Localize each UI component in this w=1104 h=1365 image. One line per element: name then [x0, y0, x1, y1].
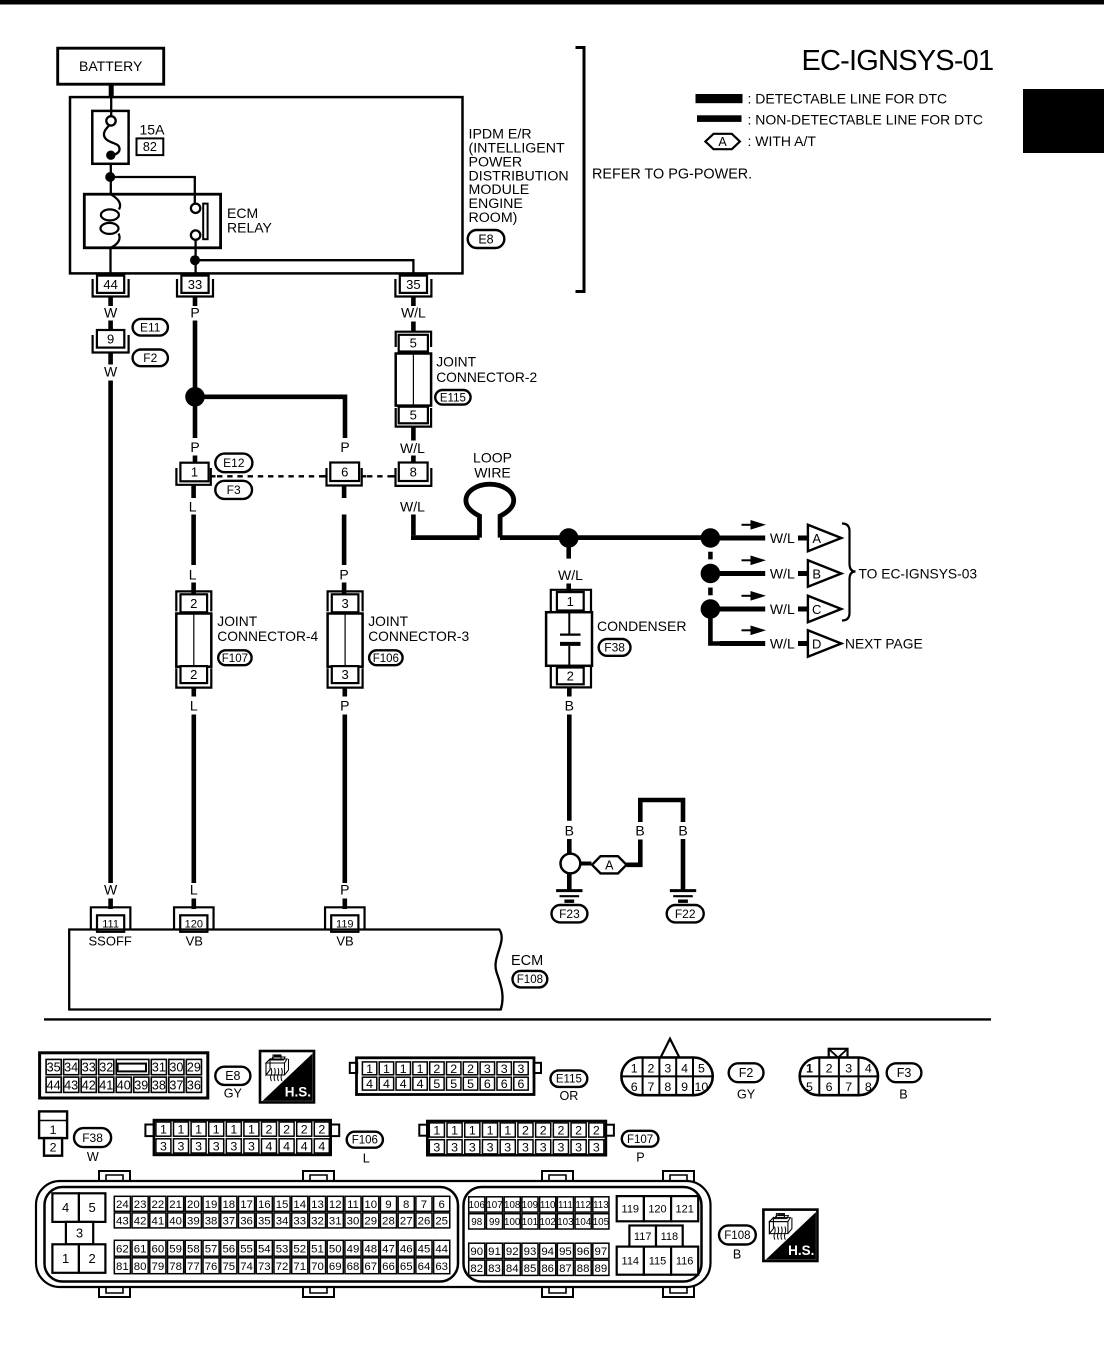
svg-text:W/L: W/L	[400, 440, 425, 456]
svg-text:40: 40	[169, 1216, 182, 1228]
connector view E115	[350, 1063, 357, 1073]
svg-text:32: 32	[99, 1061, 113, 1075]
svg-text:4: 4	[681, 1061, 688, 1075]
svg-text:6: 6	[484, 1077, 491, 1091]
svg-text:72: 72	[276, 1261, 289, 1273]
svg-text:F108: F108	[517, 974, 543, 986]
svg-text:75: 75	[222, 1261, 235, 1273]
svg-text:2: 2	[266, 1123, 273, 1137]
svg-text:37: 37	[169, 1078, 183, 1092]
svg-text:3: 3	[522, 1140, 529, 1154]
arrow B	[742, 559, 754, 561]
svg-text:6: 6	[439, 1199, 445, 1211]
junction node P	[185, 387, 205, 407]
svg-text:A: A	[605, 858, 614, 872]
svg-text:18: 18	[222, 1199, 235, 1211]
svg-text:3: 3	[230, 1139, 237, 1153]
svg-text:3: 3	[451, 1140, 458, 1154]
svg-text:6: 6	[826, 1080, 833, 1094]
wire fuse to relay	[110, 164, 112, 194]
ECM pin 120	[174, 907, 214, 929]
svg-text:119: 119	[622, 1204, 640, 1216]
svg-text:B: B	[812, 566, 821, 581]
wire W/L to joint connector-2	[411, 322, 416, 332]
tick	[798, 607, 807, 612]
svg-text:7: 7	[845, 1080, 852, 1094]
svg-text:39: 39	[134, 1078, 148, 1092]
tick	[798, 536, 807, 541]
svg-text:1: 1	[806, 1061, 813, 1075]
junction node	[105, 172, 115, 182]
wire P from pin 33	[193, 321, 198, 439]
wire P to ECM pin 119	[342, 688, 347, 697]
wire stub	[108, 899, 113, 910]
svg-text:116: 116	[676, 1256, 694, 1268]
svg-text:B: B	[678, 823, 687, 839]
svg-text:CONNECTOR-4: CONNECTOR-4	[217, 629, 318, 644]
wire stub	[192, 899, 197, 910]
wire stub under junction	[566, 548, 571, 559]
svg-text:W: W	[87, 1150, 99, 1164]
connector id F38	[599, 639, 631, 656]
fuse number 82	[137, 138, 164, 155]
svg-text:L: L	[190, 882, 198, 898]
svg-text:8: 8	[865, 1080, 872, 1094]
svg-text:30: 30	[169, 1061, 183, 1075]
svg-text:2: 2	[50, 1141, 57, 1155]
relay contact bottom	[191, 230, 200, 239]
svg-text:2: 2	[522, 1123, 529, 1137]
ECM pin grid rows 24-6 / 43-25	[114, 1196, 130, 1211]
svg-text:3: 3	[504, 1140, 511, 1154]
svg-text:42: 42	[134, 1216, 147, 1228]
svg-text:36: 36	[240, 1216, 253, 1228]
svg-text:34: 34	[64, 1061, 78, 1075]
arrow C	[742, 595, 754, 597]
svg-text:L: L	[189, 499, 197, 515]
svg-text:52: 52	[293, 1243, 306, 1255]
tick	[798, 641, 807, 646]
svg-text:106: 106	[469, 1200, 486, 1211]
svg-text:: WITH A/T: : WITH A/T	[748, 133, 817, 149]
svg-text:3: 3	[341, 667, 348, 682]
svg-text:W: W	[104, 882, 118, 898]
wire up-over	[640, 800, 683, 822]
svg-text:108: 108	[504, 1200, 521, 1211]
svg-text:W/L: W/L	[558, 567, 583, 583]
svg-text:6: 6	[631, 1080, 638, 1094]
svg-text:4: 4	[318, 1139, 325, 1153]
svg-text:3: 3	[557, 1140, 564, 1154]
flag B	[808, 560, 841, 586]
svg-text:103: 103	[557, 1217, 574, 1228]
ground id F23	[552, 905, 588, 922]
wire L	[191, 485, 196, 498]
svg-text:113: 113	[593, 1200, 609, 1211]
svg-text:90: 90	[470, 1246, 483, 1258]
relay contact top	[191, 204, 200, 213]
svg-text:2: 2	[575, 1123, 582, 1137]
svg-text:1: 1	[504, 1123, 511, 1137]
wire stub	[342, 899, 347, 910]
svg-text:CONNECTOR-2: CONNECTOR-2	[436, 370, 537, 385]
svg-text:118: 118	[661, 1231, 679, 1243]
svg-text:30: 30	[347, 1216, 360, 1228]
svg-text:2: 2	[540, 1123, 547, 1137]
svg-text:F23: F23	[559, 907, 580, 921]
svg-text:B: B	[635, 823, 644, 839]
svg-text:21: 21	[169, 1199, 182, 1211]
top header bar	[0, 0, 1104, 5]
svg-text:2: 2	[301, 1123, 308, 1137]
svg-text:31: 31	[152, 1061, 166, 1075]
svg-text:1: 1	[213, 1123, 220, 1137]
svg-text:13: 13	[311, 1199, 324, 1211]
svg-text:71: 71	[293, 1261, 306, 1273]
joint connector-2	[396, 332, 431, 347]
wire to condenser	[566, 584, 571, 593]
svg-text:33: 33	[188, 277, 202, 292]
svg-text:4: 4	[865, 1061, 872, 1075]
wire battery to IPDM	[109, 84, 114, 97]
svg-text:3: 3	[501, 1062, 508, 1076]
wire P	[342, 486, 347, 499]
connector id E12	[215, 454, 252, 473]
svg-text:7: 7	[421, 1199, 427, 1211]
svg-text:85: 85	[524, 1263, 537, 1275]
svg-text:W/L: W/L	[770, 530, 795, 546]
svg-text:41: 41	[152, 1216, 165, 1228]
dashes between nodes	[708, 552, 712, 560]
connector id F107	[622, 1131, 659, 1147]
svg-text:1: 1	[383, 1062, 390, 1076]
svg-text:JOINT: JOINT	[217, 614, 257, 629]
connector 9	[93, 335, 129, 353]
svg-text:3: 3	[160, 1139, 167, 1153]
svg-text:77: 77	[187, 1261, 200, 1273]
connector view F107	[419, 1125, 428, 1136]
svg-text:4: 4	[366, 1077, 373, 1091]
svg-text:VB: VB	[336, 933, 353, 948]
wire stub pin 33	[193, 297, 198, 307]
svg-text:2: 2	[89, 1251, 96, 1266]
svg-text:16: 16	[258, 1199, 271, 1211]
svg-text:5: 5	[450, 1077, 457, 1091]
svg-text:L: L	[363, 1152, 370, 1166]
svg-text:57: 57	[205, 1243, 218, 1255]
junction node	[559, 528, 579, 548]
svg-text:REFER TO PG-POWER.: REFER TO PG-POWER.	[592, 167, 752, 183]
svg-text:1: 1	[487, 1123, 494, 1137]
wire contact to pin 33	[194, 240, 196, 277]
svg-text:64: 64	[418, 1261, 431, 1273]
svg-text:1: 1	[366, 1062, 373, 1076]
wire to ground F22	[681, 839, 686, 890]
svg-text:35: 35	[406, 277, 420, 292]
connector 6	[322, 475, 327, 477]
svg-text:3: 3	[540, 1140, 547, 1154]
svg-text:2: 2	[648, 1061, 655, 1075]
svg-text:F3: F3	[227, 483, 241, 497]
svg-text:42: 42	[82, 1078, 96, 1092]
branch A wire	[720, 536, 765, 541]
svg-text:1: 1	[400, 1062, 407, 1076]
svg-text:92: 92	[506, 1246, 519, 1258]
connector view F106	[145, 1125, 154, 1137]
svg-text:5: 5	[410, 408, 417, 423]
svg-text:83: 83	[488, 1263, 501, 1275]
ECM key block right	[617, 1196, 644, 1221]
wire from connector 8 down	[411, 515, 416, 536]
svg-text:7: 7	[648, 1080, 655, 1094]
wire branch to pin 35	[195, 260, 413, 277]
svg-text:5: 5	[806, 1080, 813, 1094]
svg-text:6: 6	[501, 1077, 508, 1091]
svg-text:111: 111	[558, 1200, 573, 1211]
svg-text:8: 8	[410, 464, 417, 479]
ground id F22	[667, 905, 704, 922]
svg-text:4: 4	[417, 1077, 424, 1091]
svg-text:10: 10	[364, 1199, 377, 1211]
svg-text:1: 1	[178, 1123, 185, 1137]
wire into fuse	[110, 97, 112, 116]
condenser	[551, 590, 591, 615]
svg-text:B: B	[565, 823, 574, 839]
joint connector body at x=345.1	[328, 591, 363, 611]
svg-text:82: 82	[143, 140, 157, 154]
svg-text:W/L: W/L	[401, 305, 426, 321]
ECM relay box	[84, 194, 220, 248]
svg-text:41: 41	[99, 1078, 113, 1092]
svg-text:2: 2	[318, 1123, 325, 1137]
svg-text:102: 102	[540, 1217, 556, 1228]
connector id F3	[215, 481, 252, 499]
svg-text:A: A	[812, 531, 821, 546]
svg-text:97: 97	[595, 1246, 608, 1258]
svg-text:6: 6	[341, 464, 348, 479]
svg-text:12: 12	[329, 1199, 342, 1211]
wire to connector 9	[108, 321, 113, 331]
svg-text:38: 38	[205, 1216, 218, 1228]
svg-text:110: 110	[540, 1200, 556, 1211]
svg-text:F2: F2	[739, 1066, 754, 1080]
svg-text:74: 74	[240, 1261, 253, 1273]
svg-text:14: 14	[293, 1199, 306, 1211]
wire to D branch	[710, 618, 724, 644]
svg-text:43: 43	[64, 1078, 78, 1092]
svg-text:65: 65	[400, 1261, 413, 1273]
svg-text:P: P	[190, 439, 199, 455]
svg-text:W: W	[104, 364, 118, 380]
flag D	[808, 630, 841, 656]
svg-text:50: 50	[329, 1243, 342, 1255]
svg-text:95: 95	[559, 1246, 572, 1258]
svg-text:15A: 15A	[140, 122, 166, 138]
svg-text:33: 33	[82, 1061, 96, 1075]
svg-text:27: 27	[400, 1216, 413, 1228]
wire coil to pin 44	[109, 248, 111, 277]
svg-text:17: 17	[240, 1199, 253, 1211]
ECM connector right housing	[464, 1187, 702, 1282]
svg-text:109: 109	[522, 1200, 538, 1211]
svg-text:F107: F107	[222, 653, 248, 665]
svg-text:46: 46	[400, 1243, 413, 1255]
svg-text:73: 73	[258, 1261, 271, 1273]
arrow D	[742, 629, 754, 631]
svg-text:39: 39	[187, 1216, 200, 1228]
fuse 15A	[92, 111, 128, 164]
svg-text:38: 38	[152, 1078, 166, 1092]
svg-text:4: 4	[400, 1077, 407, 1091]
svg-text:32: 32	[311, 1216, 324, 1228]
svg-text:67: 67	[364, 1261, 377, 1273]
svg-text:86: 86	[541, 1263, 554, 1275]
separator	[44, 1018, 991, 1020]
svg-text:1: 1	[248, 1123, 255, 1137]
connector id E115	[551, 1070, 588, 1087]
svg-text:H.S.: H.S.	[285, 1084, 311, 1099]
connector id F108	[513, 971, 548, 988]
svg-text:3: 3	[484, 1062, 491, 1076]
svg-text:15: 15	[276, 1199, 289, 1211]
svg-text:2: 2	[467, 1062, 474, 1076]
svg-text:2: 2	[826, 1061, 833, 1075]
joint connector body at x=193.8	[176, 591, 211, 611]
svg-text:58: 58	[187, 1243, 200, 1255]
brace to EC-IGNSYS-03	[842, 524, 856, 621]
svg-text:E8: E8	[478, 232, 493, 246]
IPDM E/R box	[70, 97, 463, 273]
junction nodes column	[701, 528, 721, 548]
svg-text:1: 1	[160, 1123, 167, 1137]
svg-text:2: 2	[283, 1123, 290, 1137]
wire horizontal to loop	[411, 535, 480, 540]
svg-text:WIRE: WIRE	[474, 465, 511, 481]
svg-text:6: 6	[518, 1077, 525, 1091]
svg-text:3: 3	[664, 1061, 671, 1075]
dashed link 6-8	[367, 475, 394, 477]
connector id E115	[435, 390, 470, 405]
svg-text:25: 25	[435, 1216, 448, 1228]
connector id F106	[347, 1132, 383, 1148]
legend: with A/T hexagon	[705, 134, 740, 149]
svg-text:C: C	[812, 602, 821, 617]
svg-text:4: 4	[383, 1077, 390, 1091]
svg-text:34: 34	[276, 1216, 289, 1228]
svg-text:88: 88	[577, 1263, 590, 1275]
svg-text:55: 55	[240, 1243, 253, 1255]
svg-text:3: 3	[341, 596, 348, 611]
svg-text:94: 94	[541, 1246, 554, 1258]
svg-text:44: 44	[435, 1243, 448, 1255]
svg-text:F3: F3	[897, 1066, 912, 1080]
svg-text:2: 2	[433, 1062, 440, 1076]
branch B wire	[720, 571, 765, 576]
svg-text:89: 89	[595, 1263, 608, 1275]
svg-text:P: P	[636, 1151, 644, 1165]
svg-text:LOOP: LOOP	[473, 450, 512, 466]
svg-text:B: B	[565, 698, 574, 714]
svg-text:28: 28	[382, 1216, 395, 1228]
svg-text:P: P	[340, 439, 349, 455]
svg-text:11: 11	[347, 1199, 359, 1211]
connector id F2	[133, 350, 168, 367]
svg-text:: DETECTABLE LINE FOR DTC: : DETECTABLE LINE FOR DTC	[748, 91, 948, 107]
svg-text:24: 24	[116, 1199, 129, 1211]
svg-text:E12: E12	[223, 456, 245, 470]
svg-text:4: 4	[283, 1139, 290, 1153]
svg-text:1: 1	[567, 594, 574, 609]
svg-text:2: 2	[450, 1062, 457, 1076]
svg-text:53: 53	[276, 1243, 289, 1255]
svg-text:L: L	[190, 698, 198, 714]
svg-text:49: 49	[347, 1243, 360, 1255]
connector id F107	[218, 650, 251, 665]
svg-text:F38: F38	[82, 1131, 103, 1145]
E8 blank key slot	[118, 1064, 146, 1072]
flag C	[808, 596, 841, 622]
svg-text:F22: F22	[675, 907, 696, 921]
svg-text:1: 1	[469, 1123, 476, 1137]
svg-text:3: 3	[76, 1226, 83, 1241]
svg-text:36: 36	[187, 1078, 201, 1092]
tick	[580, 862, 591, 866]
svg-text:105: 105	[593, 1217, 610, 1228]
svg-text:29: 29	[364, 1216, 377, 1228]
connector id F3	[887, 1063, 922, 1082]
H.S. logo	[260, 1051, 314, 1102]
flag A	[808, 525, 841, 551]
svg-text:29: 29	[187, 1061, 201, 1075]
svg-text:2: 2	[190, 667, 197, 682]
loop wire symbol	[466, 484, 514, 537]
svg-text:JOINT: JOINT	[436, 355, 476, 370]
branch D wire	[720, 641, 765, 646]
svg-text:63: 63	[435, 1261, 448, 1273]
svg-text:4: 4	[266, 1139, 273, 1153]
svg-text:26: 26	[418, 1216, 431, 1228]
svg-text:87: 87	[559, 1263, 572, 1275]
IPDM pin 33	[177, 279, 213, 297]
svg-text:B: B	[899, 1087, 907, 1101]
legend: detectable line	[696, 94, 743, 103]
svg-text:120: 120	[648, 1204, 666, 1216]
IPDM pin 35	[395, 279, 431, 297]
svg-text:9: 9	[681, 1080, 688, 1094]
svg-text:CONDENSER: CONDENSER	[597, 618, 686, 634]
svg-text:93: 93	[524, 1246, 537, 1258]
svg-text:10: 10	[695, 1080, 709, 1094]
wire B down	[567, 687, 572, 696]
ECM box	[69, 930, 502, 1010]
ECM pin grid rows 62-44 / 81-63	[114, 1240, 130, 1256]
svg-text:3: 3	[518, 1062, 525, 1076]
svg-text:P: P	[340, 882, 349, 898]
dashed link 1-6	[217, 475, 324, 477]
svg-text:1: 1	[191, 465, 198, 480]
legend: non-detectable line	[697, 115, 742, 122]
connector 8	[391, 475, 395, 477]
svg-text:19: 19	[205, 1199, 218, 1211]
connector id F38	[74, 1128, 111, 1147]
svg-text:81: 81	[116, 1261, 129, 1273]
svg-text:E8: E8	[225, 1069, 240, 1083]
connector id F2	[729, 1063, 764, 1082]
svg-text:8: 8	[403, 1199, 409, 1211]
wire branch to relay contact	[110, 177, 195, 204]
svg-text:48: 48	[364, 1243, 377, 1255]
svg-text:F106: F106	[373, 653, 399, 665]
